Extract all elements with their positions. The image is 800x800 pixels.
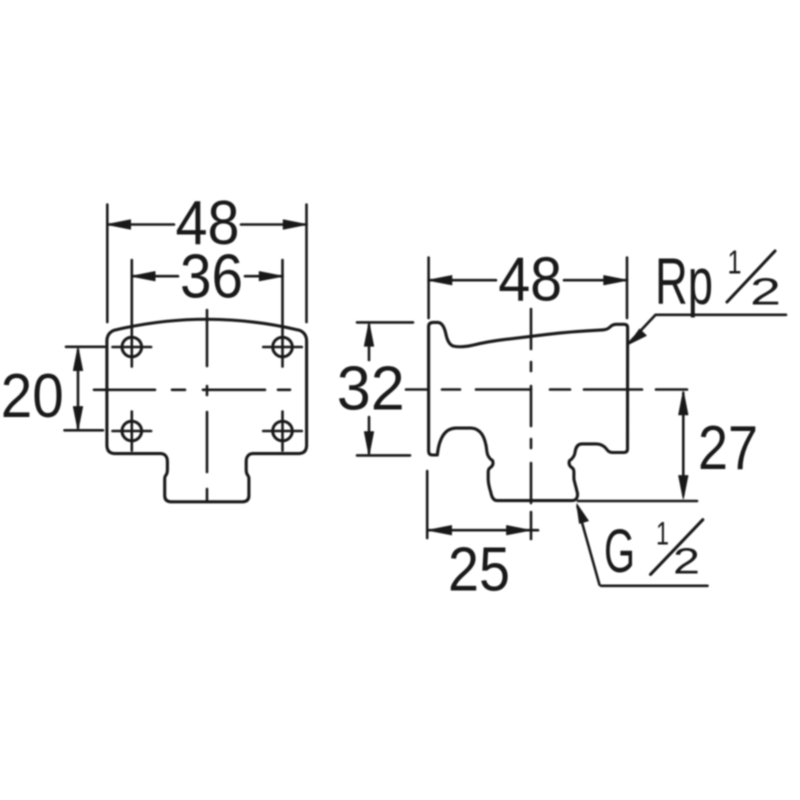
svg-text:48: 48 (498, 246, 562, 315)
svg-text:1: 1 (656, 516, 669, 552)
svg-text:36: 36 (180, 243, 243, 312)
svg-text:1: 1 (728, 244, 742, 281)
svg-text:2: 2 (673, 541, 700, 582)
svg-text:32: 32 (337, 355, 405, 424)
svg-text:G: G (604, 517, 635, 585)
svg-text:Rp: Rp (655, 244, 713, 318)
svg-text:25: 25 (448, 536, 510, 605)
svg-text:27: 27 (698, 414, 758, 483)
svg-text:20: 20 (1, 362, 64, 431)
svg-text:2: 2 (750, 272, 781, 314)
